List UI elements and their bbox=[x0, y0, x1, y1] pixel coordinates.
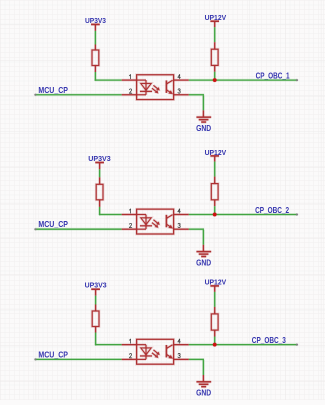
optocoupler U1 phototransistor bbox=[166, 80, 172, 94]
pin number 3 (block 2) bbox=[178, 223, 180, 227]
resistor (left, 3V3 pull-up, block 2) bbox=[96, 184, 103, 200]
pin number 2 (block 2) bbox=[129, 223, 132, 227]
resistor (right, 12V pull-up, block 3) bbox=[211, 314, 218, 330]
wire resistor to opto pin 1 (block 2) bbox=[99, 200, 137, 215]
ground symbol (block 3) bbox=[196, 382, 211, 387]
wire resistor to output net (block 1) bbox=[213, 65, 216, 80]
pin number 3 (block 1) bbox=[178, 89, 180, 93]
pin number 1 (block 1) bbox=[129, 75, 130, 79]
junction (block 3) bbox=[212, 342, 217, 347]
wire resistor to opto pin 1 (block 1) bbox=[95, 66, 137, 81]
wire UP12V to resistor (block 2) bbox=[213, 162, 216, 184]
svg-text:CP_OBC_1: CP_OBC_1 bbox=[256, 72, 290, 81]
svg-text:UP3V3: UP3V3 bbox=[85, 281, 107, 290]
optocoupler U3 phototransistor bbox=[166, 345, 172, 359]
optocoupler U1 body bbox=[137, 75, 174, 100]
pin number 3 (block 3) bbox=[178, 353, 180, 357]
pin number 2 (block 3) bbox=[129, 354, 132, 358]
resistor (left, 3V3 pull-up, block 1) bbox=[92, 50, 99, 66]
ground symbol (block 2) bbox=[196, 252, 211, 257]
wire opto pin 3 to GND (block 3) bbox=[174, 359, 204, 381]
power symbol UP3V3 (block 1) bbox=[91, 24, 100, 31]
wire MCU_CP to opto pin 2 (block 3) bbox=[34, 358, 137, 361]
wire opto pin 4 to CP_OBC_1 (block 1) bbox=[174, 79, 299, 82]
svg-text:MCU_CP: MCU_CP bbox=[38, 220, 68, 229]
resistor (left, 3V3 pull-up, block 3) bbox=[92, 311, 99, 327]
wire MCU_CP to opto pin 2 (block 1) bbox=[34, 93, 137, 96]
power symbol UP12V (block 2) bbox=[210, 156, 219, 162]
optocoupler U3 light arrows bbox=[152, 350, 160, 358]
resistor (right, 12V pull-up, block 1) bbox=[211, 49, 218, 65]
wire UP12V to resistor (block 3) bbox=[213, 292, 216, 314]
wire opto pin 4 to CP_OBC_2 (block 2) bbox=[174, 213, 299, 216]
wire UP3V3 to resistor (block 2) bbox=[98, 169, 101, 184]
wire UP3V3 to resistor (block 1) bbox=[94, 31, 97, 50]
pin number 4 (block 2) bbox=[178, 209, 181, 213]
wire UP3V3 to resistor (block 3) bbox=[94, 296, 97, 311]
optocoupler U3 LED bbox=[137, 345, 153, 360]
svg-text:MCU_CP: MCU_CP bbox=[38, 86, 68, 95]
wire opto pin 3 to GND (block 2) bbox=[174, 229, 204, 251]
optocoupler U2 LED bbox=[137, 215, 153, 230]
power symbol UP3V3 (block 2) bbox=[95, 163, 104, 170]
wire resistor to output net (block 3) bbox=[213, 330, 216, 345]
pin number 4 (block 3) bbox=[178, 339, 181, 343]
wire resistor to opto pin 1 (block 3) bbox=[95, 327, 137, 346]
pin number 1 (block 3) bbox=[129, 339, 130, 343]
svg-text:GND: GND bbox=[196, 258, 211, 267]
svg-text:CP_OBC_3: CP_OBC_3 bbox=[252, 336, 286, 345]
optocoupler U1 light arrows bbox=[152, 85, 160, 93]
svg-text:CP_OBC_2: CP_OBC_2 bbox=[255, 206, 289, 215]
optocoupler U1 LED bbox=[137, 80, 153, 95]
junction (block 2) bbox=[212, 212, 217, 217]
svg-text:UP12V: UP12V bbox=[205, 278, 227, 287]
junction (block 1) bbox=[212, 78, 217, 83]
pin number 2 (block 1) bbox=[129, 89, 132, 93]
wire UP12V to resistor (block 1) bbox=[213, 27, 216, 49]
power symbol UP12V (block 1) bbox=[210, 21, 219, 27]
optocoupler U2 light arrows bbox=[152, 220, 160, 228]
resistor (right, 12V pull-up, block 2) bbox=[211, 184, 218, 200]
svg-text:UP3V3: UP3V3 bbox=[85, 16, 106, 25]
optocoupler U2 body bbox=[137, 209, 174, 234]
svg-text:UP12V: UP12V bbox=[205, 148, 227, 157]
wire opto pin 4 to CP_OBC_3 (block 3) bbox=[174, 343, 299, 346]
wire MCU_CP to opto pin 2 (block 2) bbox=[34, 228, 137, 231]
ground symbol (block 1) bbox=[196, 117, 211, 122]
optocoupler U2 phototransistor bbox=[166, 215, 172, 229]
svg-text:UP12V: UP12V bbox=[205, 13, 227, 22]
pin number 4 (block 1) bbox=[178, 74, 181, 78]
pin number 1 (block 2) bbox=[129, 209, 130, 213]
wire opto pin 3 to GND (block 1) bbox=[174, 95, 204, 117]
svg-text:UP3V3: UP3V3 bbox=[88, 154, 111, 163]
svg-text:GND: GND bbox=[196, 124, 211, 133]
power symbol UP3V3 (block 3) bbox=[91, 289, 100, 296]
wire resistor to output net (block 2) bbox=[213, 200, 216, 215]
svg-text:MCU_CP: MCU_CP bbox=[38, 350, 68, 359]
optocoupler U3 body bbox=[137, 339, 174, 364]
svg-text:GND: GND bbox=[196, 389, 211, 398]
power symbol UP12V (block 3) bbox=[210, 286, 219, 292]
